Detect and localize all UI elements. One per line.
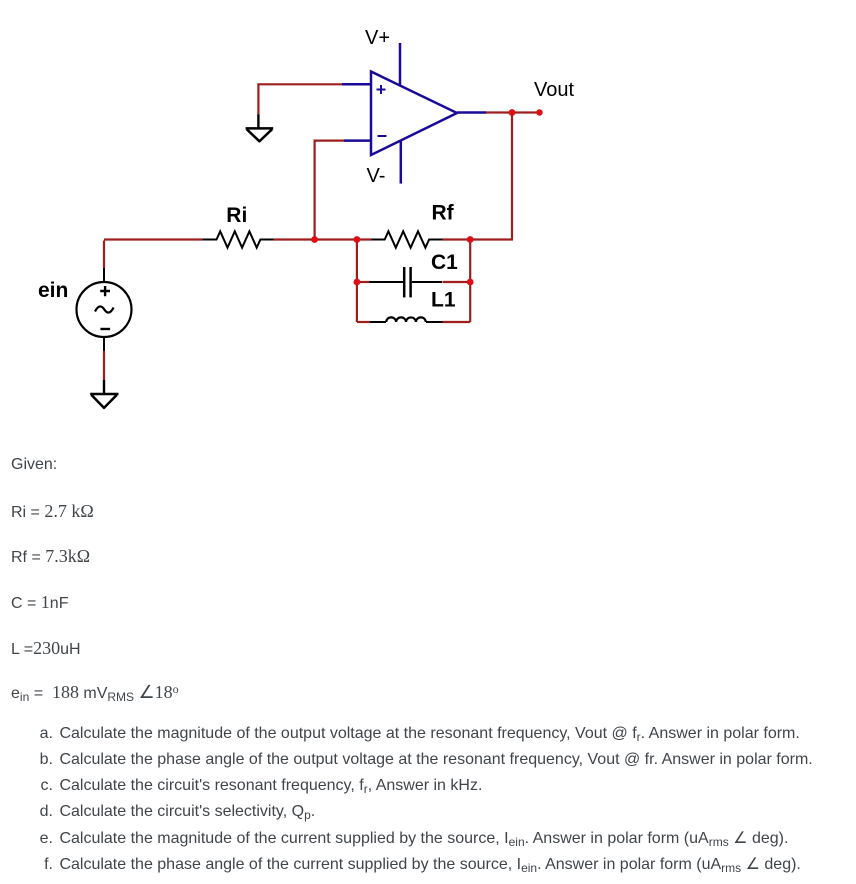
svg-text:V-: V- (367, 165, 386, 187)
svg-text:Vout: Vout (534, 79, 574, 101)
svg-text:Ri: Ri (226, 204, 247, 227)
svg-text:V+: V+ (365, 27, 390, 49)
svg-text:Rf: Rf (432, 202, 455, 225)
svg-text:ein: ein (38, 279, 68, 302)
svg-text:L1: L1 (431, 289, 456, 312)
svg-text:C1: C1 (431, 251, 458, 274)
